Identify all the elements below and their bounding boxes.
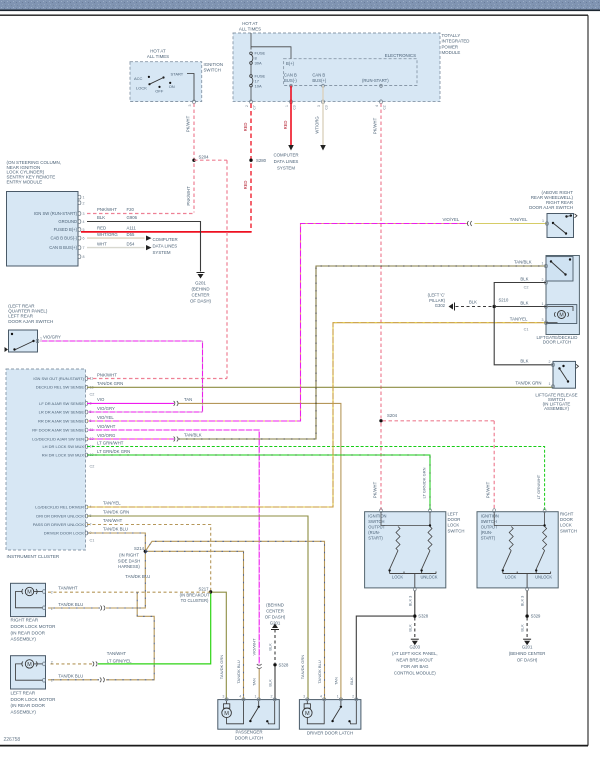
svg-text:DATA LINES: DATA LINES [274, 159, 299, 164]
svg-text:BUS(-): BUS(-) [284, 78, 297, 83]
svg-text:DATA LINES: DATA LINES [153, 243, 178, 248]
svg-text:LG/DECKLID REL DRIVER: LG/DECKLID REL DRIVER [35, 504, 84, 509]
svg-text:CAN B: CAN B [312, 73, 325, 78]
svg-text:BLK 3: BLK 3 [407, 596, 412, 607]
svg-text:PK/WHT: PK/WHT [373, 117, 378, 134]
svg-text:TAN/WHT: TAN/WHT [103, 518, 123, 523]
svg-text:DOOR LATCH: DOOR LATCH [543, 339, 571, 344]
svg-text:226758: 226758 [4, 737, 21, 743]
svg-text:C2: C2 [524, 285, 529, 289]
svg-text:TAN: TAN [334, 677, 339, 685]
svg-text:TAN/YEL: TAN/YEL [510, 217, 528, 222]
svg-text:HARNESS): HARNESS) [118, 564, 140, 569]
svg-text:C2: C2 [90, 465, 95, 469]
svg-text:PK/WHT: PK/WHT [186, 115, 191, 132]
svg-text:BLK: BLK [97, 215, 105, 220]
svg-text:WHT/ORG: WHT/ORG [97, 232, 118, 237]
svg-text:TAN/DK BLU: TAN/DK BLU [317, 660, 322, 683]
svg-text:DOOR: DOOR [560, 517, 573, 522]
svg-text:VIO: VIO [97, 397, 105, 402]
svg-text:3: 3 [542, 318, 544, 322]
svg-text:(BEHIND: (BEHIND [191, 287, 209, 292]
svg-text:RED: RED [283, 121, 288, 130]
svg-text:BLK: BLK [469, 299, 477, 304]
svg-text:B(+): B(+) [286, 61, 295, 66]
svg-text:TAN/WHT: TAN/WHT [58, 585, 78, 590]
svg-text:SWITCH: SWITCH [560, 528, 577, 533]
svg-text:G302: G302 [435, 303, 446, 308]
svg-text:TAN/YEL: TAN/YEL [103, 501, 121, 506]
svg-text:2: 2 [549, 360, 551, 364]
svg-text:PK/WHT: PK/WHT [373, 481, 378, 498]
svg-text:LT GRN/DK GRN: LT GRN/DK GRN [97, 449, 130, 454]
svg-text:S204: S204 [199, 155, 210, 160]
svg-text:(IN REAR DOOR: (IN REAR DOOR [11, 630, 46, 635]
svg-text:8: 8 [83, 255, 85, 259]
svg-text:VIO/ORG: VIO/ORG [97, 433, 116, 438]
svg-text:DRIVER DOOR LOCK: DRIVER DOOR LOCK [44, 530, 85, 535]
svg-text:IGNITION: IGNITION [368, 514, 386, 519]
svg-text:ON: ON [169, 84, 175, 89]
svg-text:INSTRUMENT CLUSTER: INSTRUMENT CLUSTER [7, 554, 60, 559]
svg-text:(BEHIND CENTER: (BEHIND CENTER [509, 651, 546, 656]
svg-text:C2: C2 [382, 105, 386, 109]
svg-text:IGNITION: IGNITION [204, 62, 224, 67]
svg-text:IGN SW OUT (RUN-START): IGN SW OUT (RUN-START) [33, 376, 84, 381]
svg-text:INTEGRATED: INTEGRATED [442, 39, 470, 44]
svg-text:SYSTEM: SYSTEM [153, 250, 171, 255]
svg-text:2: 2 [51, 591, 53, 595]
svg-text:PK/WHT: PK/WHT [486, 481, 491, 498]
svg-text:DOOR AJAR SWITCH: DOOR AJAR SWITCH [529, 205, 573, 210]
svg-text:GROUND: GROUND [58, 219, 77, 224]
svg-text:C7: C7 [252, 105, 256, 109]
svg-text:(IN REAR DOOR: (IN REAR DOOR [11, 703, 46, 708]
svg-text:TAN/DK BLU: TAN/DK BLU [236, 660, 241, 683]
svg-text:TAN/DK GRN: TAN/DK GRN [103, 510, 129, 515]
svg-text:ENTRY MODULE: ENTRY MODULE [7, 180, 43, 185]
svg-text:PNK/WHT: PNK/WHT [97, 207, 117, 212]
svg-text:4: 4 [375, 105, 379, 107]
svg-text:CONTROL MODULE): CONTROL MODULE) [394, 671, 436, 676]
svg-text:BLK: BLK [520, 276, 528, 281]
svg-text:TAN/DK BLU: TAN/DK BLU [58, 674, 83, 679]
svg-text:TAN/DK GRN: TAN/DK GRN [300, 655, 305, 679]
svg-text:2: 2 [542, 278, 544, 282]
svg-text:2: 2 [271, 694, 273, 698]
svg-text:LOCK: LOCK [505, 575, 516, 580]
svg-text:PASSENGER: PASSENGER [235, 730, 262, 735]
svg-text:4: 4 [239, 694, 241, 698]
svg-text:OF DASH): OF DASH) [190, 299, 212, 304]
svg-text:M: M [305, 711, 310, 717]
svg-text:10A: 10A [255, 84, 262, 89]
svg-text:WT/ORG: WT/ORG [315, 116, 320, 133]
svg-text:LT GRN/WHT: LT GRN/WHT [536, 474, 541, 499]
svg-text:1: 1 [51, 679, 53, 683]
svg-text:OF DASH): OF DASH) [265, 614, 286, 619]
svg-text:A111: A111 [127, 226, 137, 231]
svg-text:M: M [224, 711, 229, 717]
svg-text:2: 2 [51, 661, 53, 665]
svg-text:BUS(+): BUS(+) [312, 78, 326, 83]
svg-text:BLK: BLK [349, 677, 354, 685]
svg-text:VIO/GRY: VIO/GRY [97, 406, 115, 411]
svg-text:3: 3 [303, 694, 305, 698]
svg-text:3: 3 [222, 694, 224, 698]
svg-text:ALL TIMES: ALL TIMES [239, 26, 261, 31]
svg-text:NEAR BREAKOUT: NEAR BREAKOUT [396, 658, 433, 663]
svg-text:LOCK: LOCK [392, 575, 403, 580]
svg-text:4: 4 [320, 694, 322, 698]
svg-text:LOCK: LOCK [136, 86, 147, 91]
svg-text:WHT: WHT [97, 241, 107, 246]
svg-text:S328: S328 [418, 614, 428, 619]
svg-text:2: 2 [352, 694, 354, 698]
svg-text:BLK 3: BLK 3 [520, 596, 525, 607]
svg-text:PASS DR DRIVER UNLOCK: PASS DR DRIVER UNLOCK [33, 522, 85, 527]
svg-text:11: 11 [90, 377, 94, 381]
svg-text:4: 4 [83, 220, 85, 224]
svg-text:UNLOCK: UNLOCK [535, 575, 552, 580]
svg-text:COMPUTER: COMPUTER [153, 237, 178, 242]
svg-text:OF DASH): OF DASH) [517, 658, 538, 663]
svg-text:CAB B BUS(-): CAB B BUS(-) [50, 236, 77, 241]
svg-text:DOOR: DOOR [448, 517, 461, 522]
svg-text:(RUN-: (RUN- [368, 530, 380, 535]
svg-text:M: M [559, 313, 563, 319]
svg-text:(RUN-START): (RUN-START) [362, 78, 389, 83]
svg-text:C2: C2 [90, 393, 95, 397]
svg-text:TAN/DK GRN: TAN/DK GRN [219, 655, 224, 679]
svg-text:C1: C1 [524, 327, 529, 331]
svg-text:S210: S210 [499, 298, 509, 303]
svg-text:START): START) [368, 536, 383, 541]
svg-text:ACC: ACC [134, 76, 143, 81]
svg-text:LEFT REAR: LEFT REAR [11, 691, 36, 696]
svg-text:S329: S329 [531, 614, 541, 619]
svg-text:D55: D55 [127, 232, 135, 237]
svg-text:TAN/DK GRN: TAN/DK GRN [515, 381, 541, 386]
svg-text:CAN B BUS(+): CAN B BUS(+) [49, 245, 77, 250]
svg-text:(BEHIND: (BEHIND [266, 602, 284, 607]
svg-text:6: 6 [83, 237, 85, 241]
svg-text:BLK: BLK [268, 679, 273, 687]
svg-text:RR DR AJAR SW SENSE: RR DR AJAR SW SENSE [38, 418, 84, 423]
svg-text:BLK: BLK [407, 624, 412, 632]
svg-text:IGN SW (RUN-START): IGN SW (RUN-START) [34, 211, 78, 216]
svg-text:IGNITION: IGNITION [481, 514, 499, 519]
svg-text:LT GRN/DK GRN: LT GRN/DK GRN [422, 467, 427, 498]
svg-text:ASSEMBLY): ASSEMBLY) [11, 710, 37, 715]
svg-text:HOT AT: HOT AT [242, 21, 258, 26]
svg-text:RF DOOR AJAR SW SENSE: RF DOOR AJAR SW SENSE [32, 427, 84, 432]
svg-text:LH DR LOCK SW MUX: LH DR LOCK SW MUX [42, 444, 84, 449]
svg-text:1: 1 [285, 105, 289, 107]
svg-text:PNK/WHT: PNK/WHT [186, 186, 191, 206]
svg-text:1: 1 [83, 196, 85, 200]
svg-text:1: 1 [542, 261, 544, 265]
svg-text:ASSEMBLY): ASSEMBLY) [544, 406, 569, 411]
svg-text:FUSED B(+): FUSED B(+) [54, 227, 78, 232]
svg-text:VIO/WHT: VIO/WHT [251, 638, 256, 656]
svg-text:DRIVER DOOR LATCH: DRIVER DOOR LATCH [307, 730, 353, 735]
svg-text:BLK: BLK [268, 643, 273, 651]
svg-text:C3: C3 [292, 105, 296, 109]
svg-text:PILLAR): PILLAR) [429, 298, 445, 303]
svg-text:S328: S328 [279, 662, 289, 667]
svg-text:30A: 30A [255, 61, 262, 66]
svg-text:FOR AIR BAG: FOR AIR BAG [401, 664, 429, 669]
svg-text:BLK: BLK [520, 300, 528, 305]
svg-text:S214: S214 [134, 546, 145, 551]
svg-text:RED: RED [97, 226, 106, 231]
svg-text:START: START [171, 72, 184, 77]
svg-text:2: 2 [245, 105, 249, 107]
svg-text:CENTER: CENTER [266, 608, 284, 613]
svg-text:TAN/BLK: TAN/BLK [514, 260, 532, 265]
svg-text:C1: C1 [90, 539, 95, 543]
svg-text:LR DR AJAR SW SENSE: LR DR AJAR SW SENSE [39, 409, 85, 414]
svg-text:VIO/YEL: VIO/YEL [97, 415, 114, 420]
svg-text:1: 1 [542, 302, 544, 306]
svg-text:ASSEMBLY): ASSEMBLY) [11, 637, 37, 642]
svg-text:(RUN-: (RUN- [481, 530, 493, 535]
svg-text:ELECTRONICS: ELECTRONICS [385, 53, 416, 58]
svg-text:SWITCH: SWITCH [368, 519, 384, 524]
svg-text:5: 5 [83, 228, 85, 232]
svg-text:S204: S204 [387, 413, 398, 418]
svg-text:TO CLUSTER): TO CLUSTER) [181, 598, 209, 603]
svg-text:CAN B: CAN B [284, 73, 297, 78]
svg-text:DOOR LOCK MOTOR: DOOR LOCK MOTOR [11, 624, 57, 629]
svg-text:2: 2 [83, 201, 85, 205]
svg-text:CENTER: CENTER [191, 293, 209, 298]
svg-text:UNLOCK: UNLOCK [420, 575, 437, 580]
svg-text:3: 3 [188, 105, 192, 107]
svg-text:TAN/BLK: TAN/BLK [184, 433, 202, 438]
svg-text:BLK: BLK [520, 624, 525, 632]
svg-text:TOTALLY: TOTALLY [442, 33, 461, 38]
svg-text:3: 3 [83, 212, 85, 216]
svg-text:RED: RED [243, 123, 248, 132]
svg-text:LOCK: LOCK [448, 523, 460, 528]
svg-text:G201: G201 [195, 281, 206, 286]
svg-text:TAN/WHT: TAN/WHT [107, 651, 127, 656]
svg-text:M: M [27, 590, 32, 596]
svg-text:(AT LEFT KICK PANEL,: (AT LEFT KICK PANEL, [392, 651, 438, 656]
svg-text:VIO/YEL: VIO/YEL [443, 217, 460, 222]
svg-text:LF DR AJAR SW SENSE: LF DR AJAR SW SENSE [39, 401, 84, 406]
svg-text:LT GRN/WHT: LT GRN/WHT [97, 440, 124, 445]
svg-text:DOOR AJAR SWITCH: DOOR AJAR SWITCH [8, 319, 53, 324]
svg-text:POWER: POWER [442, 44, 459, 49]
svg-text:SYSTEM: SYSTEM [277, 165, 295, 170]
svg-text:1: 1 [549, 382, 551, 386]
svg-text:MODULE: MODULE [442, 50, 461, 55]
svg-text:7: 7 [83, 246, 85, 250]
svg-text:F20: F20 [127, 207, 135, 212]
svg-text:1: 1 [40, 337, 42, 341]
svg-text:RED: RED [243, 181, 248, 190]
svg-text:G203: G203 [410, 645, 421, 650]
svg-text:SWITCH: SWITCH [448, 528, 465, 533]
svg-text:SIDE DASH: SIDE DASH [118, 558, 141, 563]
svg-text:TAN/DK BLU: TAN/DK BLU [125, 574, 150, 579]
svg-text:LT GRN/YEL: LT GRN/YEL [107, 658, 132, 663]
svg-text:(IN BREAKOUT: (IN BREAKOUT [180, 592, 210, 597]
svg-text:ALL TIMES: ALL TIMES [147, 54, 169, 59]
svg-text:G906: G906 [127, 215, 138, 220]
svg-text:LEFT: LEFT [448, 512, 459, 517]
svg-text:M: M [27, 662, 32, 668]
svg-text:LOCK: LOCK [560, 523, 572, 528]
svg-text:SWITCH: SWITCH [204, 68, 221, 73]
svg-text:VIO/GRY: VIO/GRY [43, 334, 61, 339]
svg-text:(LEFT 'C': (LEFT 'C' [428, 293, 446, 298]
svg-text:1: 1 [255, 694, 257, 698]
svg-text:S280: S280 [256, 158, 267, 163]
svg-text:TAN: TAN [184, 397, 192, 402]
svg-text:DRI DR DRIVER UNLOCK: DRI DR DRIVER UNLOCK [36, 513, 84, 518]
svg-text:TAN: TAN [252, 678, 257, 686]
svg-text:COMPUTER: COMPUTER [273, 152, 298, 157]
svg-text:OFF: OFF [155, 88, 164, 93]
svg-text:D54: D54 [127, 241, 135, 246]
svg-text:1: 1 [51, 607, 53, 611]
svg-text:S217: S217 [198, 586, 209, 591]
svg-text:VIO/WHT: VIO/WHT [97, 424, 116, 429]
svg-text:1: 1 [542, 219, 544, 223]
svg-text:TAN/YEL: TAN/YEL [510, 316, 528, 321]
svg-text:3: 3 [317, 105, 321, 107]
svg-text:PNK/WHT: PNK/WHT [97, 372, 117, 377]
svg-text:RH DR LOCK SW MUX: RH DR LOCK SW MUX [42, 452, 85, 457]
svg-text:DOOR LOCK MOTOR: DOOR LOCK MOTOR [11, 697, 57, 702]
svg-text:LG/DECKLID AJAR SW SEN: LG/DECKLID AJAR SW SEN [32, 436, 84, 441]
svg-text:BLK: BLK [520, 359, 528, 364]
svg-text:1: 1 [337, 694, 339, 698]
svg-text:RIGHT: RIGHT [560, 512, 574, 517]
svg-text:RIGHT REAR: RIGHT REAR [11, 618, 39, 623]
svg-text:HOT AT: HOT AT [150, 49, 166, 54]
svg-text:DOOR LATCH: DOOR LATCH [235, 735, 263, 740]
svg-text:(IN RIGHT: (IN RIGHT [119, 553, 139, 558]
svg-text:G201: G201 [522, 645, 533, 650]
svg-text:TAN/DK GRN: TAN/DK GRN [97, 381, 123, 386]
svg-text:START): START) [481, 536, 496, 541]
svg-text:TAN/DK BLU: TAN/DK BLU [58, 602, 83, 607]
svg-text:TAN/DK BLU: TAN/DK BLU [103, 527, 128, 532]
svg-text:DECKLID REL SW SENSE: DECKLID REL SW SENSE [36, 385, 85, 390]
svg-text:C3: C3 [324, 105, 328, 109]
